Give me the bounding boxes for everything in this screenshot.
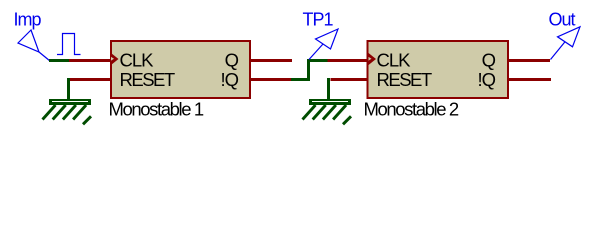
- wire Imp to CLK1 (green segment): [49, 59, 69, 62]
- svg-text:RESET: RESET: [377, 69, 432, 90]
- probe Imp (input pin arrow): [18, 30, 50, 61]
- pin marker CLK2 arrow: [369, 53, 377, 65]
- pin stub !Q1: [250, 78, 291, 81]
- ground GND1: [43, 99, 92, 124]
- svg-text:CLK: CLK: [120, 50, 155, 71]
- svg-text:!Q: !Q: [477, 69, 495, 90]
- svg-text:CLK: CLK: [377, 50, 412, 71]
- svg-text:Monostable 2: Monostable 2: [364, 98, 459, 119]
- pin marker CLK1 arrow: [111, 53, 119, 65]
- svg-text:Out: Out: [549, 9, 576, 29]
- svg-text:RESET: RESET: [120, 69, 175, 90]
- wire !Q1 to junction (green horizontal): [291, 78, 310, 81]
- wire junction vertical (green): [307, 59, 310, 81]
- pin stub CLK1 (red segment): [69, 59, 110, 62]
- ground GND2: [303, 99, 352, 124]
- wire RESET2 to ground (green vertical): [327, 78, 330, 99]
- monostable U1 body: [111, 41, 250, 98]
- svg-text:TP1: TP1: [303, 10, 334, 30]
- svg-text:Imp: Imp: [14, 10, 42, 30]
- pin stub RESET2 (red): [331, 78, 368, 81]
- svg-text:!Q: !Q: [220, 69, 238, 90]
- pin stub CLK2 (red): [328, 59, 368, 62]
- svg-text:Monostable 1: Monostable 1: [109, 98, 204, 119]
- wire RESET1 to ground (green vertical): [67, 78, 70, 99]
- pin stub Q1 (dangling): [250, 59, 292, 62]
- probe Out arrow: [551, 27, 581, 60]
- monostable U2 body: [368, 41, 509, 98]
- pulse waveform icon: [57, 34, 81, 55]
- pin stub !Q2: [508, 78, 551, 81]
- svg-text:Q: Q: [482, 50, 496, 71]
- probe TP1 arrow: [309, 29, 338, 60]
- pin stub Q2: [508, 59, 550, 62]
- svg-text:Q: Q: [225, 50, 239, 71]
- wire junction to CLK2 (green horizontal): [307, 59, 328, 62]
- pin stub RESET1 (red segment): [69, 78, 110, 81]
